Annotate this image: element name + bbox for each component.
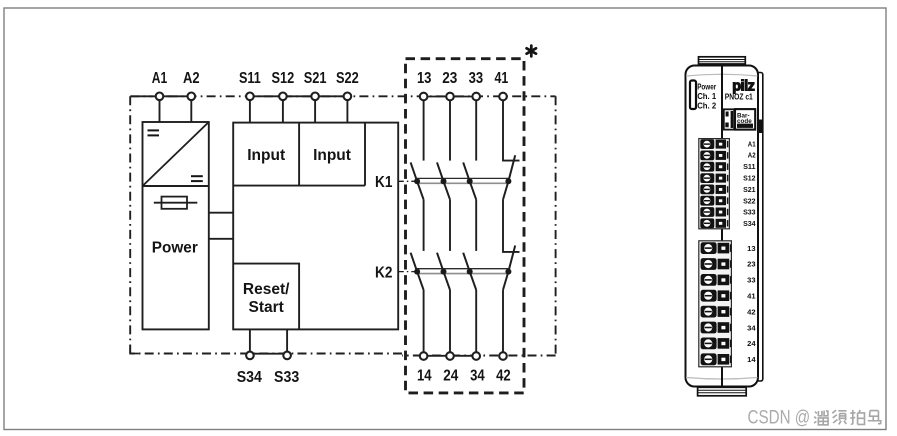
wire S11 stub [249, 100, 251, 123]
contact K1-41 blade (NC) [503, 155, 515, 199]
terminal S22 [344, 93, 352, 101]
contact K2-42 blade (NC) [503, 246, 515, 290]
terminal screw A1 (device) [700, 139, 727, 149]
wire S22 stub [346, 100, 348, 123]
svg-text:23: 23 [747, 260, 755, 269]
converter section divider [143, 185, 209, 187]
barcode label right box [735, 109, 755, 130]
svg-text:S12: S12 [743, 174, 756, 183]
svg-text:23: 23 [442, 70, 457, 87]
lower wire 24 [449, 290, 451, 352]
K1 junction dots [414, 178, 511, 184]
lower terminal block outline [699, 241, 732, 367]
svg-text:Start: Start [249, 299, 284, 316]
body bottom seam [686, 378, 758, 380]
fuse F1 [154, 197, 198, 209]
terminal S34 [246, 352, 254, 360]
reset/start block [233, 264, 299, 330]
svg-text:41: 41 [747, 292, 756, 301]
contact K1-41 upper wire [503, 101, 520, 161]
wire S34 stub [249, 329, 251, 351]
device top DIN tab [699, 57, 746, 65]
terminal screw 41 (device) [701, 290, 731, 302]
solid joins on boundary between terminal pairs [131, 96, 472, 356]
terminal screw 23 (device) [701, 258, 731, 270]
svg-text:S33: S33 [274, 369, 300, 386]
device side wall [757, 73, 763, 382]
svg-text:24: 24 [443, 368, 458, 385]
svg-text:14: 14 [417, 368, 432, 385]
watermark CSDN [748, 407, 881, 429]
K1 linkage bar [417, 178, 508, 183]
wire A2 stub [190, 100, 192, 123]
mid wire 33-34 [475, 200, 477, 251]
contact K1-23 blade [437, 162, 450, 199]
contact K1-23 upper wire [449, 101, 451, 161]
contact K2-13 blade [411, 253, 424, 290]
watermark glyph pai [850, 410, 864, 424]
terminal screw 34 (device) [701, 322, 731, 334]
svg-text:S22: S22 [336, 70, 359, 87]
terminal 33 [472, 93, 480, 101]
terminal A1 [156, 93, 164, 101]
svg-text:24: 24 [747, 339, 756, 348]
terminal S12 [279, 93, 287, 101]
svg-text:42: 42 [747, 307, 755, 316]
terminal 34 [472, 352, 480, 360]
svg-text:CSDN @: CSDN @ [748, 407, 811, 429]
svg-text:A2: A2 [183, 70, 200, 87]
mid wire 23-24 [449, 200, 451, 251]
body top seam [686, 74, 758, 76]
contact K1-13 blade [411, 162, 424, 199]
svg-text:Reset/: Reset/ [243, 281, 290, 298]
svg-text:S22: S22 [743, 196, 756, 205]
svg-text:S11: S11 [743, 162, 756, 171]
converter diagonal [143, 122, 209, 186]
svg-text:S21: S21 [304, 70, 327, 87]
LED window [690, 81, 696, 110]
watermark glyph ma [868, 411, 881, 424]
watermark glyph xu [832, 410, 846, 424]
barcode label left box [724, 109, 734, 129]
contact K1-13 upper wire [423, 101, 425, 161]
svg-text:A1: A1 [152, 70, 168, 87]
dash-dot enclosure boundary [130, 96, 555, 355]
K2 junction dots [414, 269, 511, 275]
lower wire 34 [475, 290, 477, 352]
body centre seam [721, 66, 723, 386]
terminal screw S12 (device) [700, 173, 727, 183]
device bottom tab [698, 387, 747, 396]
terminal 24 [446, 352, 454, 360]
contact block dashed outline [406, 59, 525, 393]
wire S12 stub [282, 100, 284, 123]
terminal screw 13 (device) [701, 242, 731, 254]
terminal 41 [499, 93, 507, 101]
lower terminal labels [747, 244, 756, 364]
upper terminal labels [743, 139, 756, 228]
terminal A2 [188, 93, 196, 101]
contact K1-33 blade [463, 162, 476, 199]
terminal screw 14 (device) [701, 353, 731, 365]
svg-text:S34: S34 [743, 219, 756, 228]
terminal screw S21 (device) [700, 185, 727, 195]
svg-text:Power: Power [152, 240, 198, 257]
svg-text:13: 13 [417, 70, 432, 87]
contact K1-33 upper wire [475, 101, 477, 161]
boundary corner marks [129, 346, 138, 355]
terminal screw S22 (device) [700, 196, 727, 206]
svg-text:34: 34 [470, 368, 485, 385]
terminal screw 33 (device) [701, 274, 731, 286]
svg-text:S21: S21 [743, 185, 756, 194]
wire A1 stub [159, 100, 161, 123]
K2 linkage bar [417, 269, 508, 274]
device PNOZ c1 front view [686, 57, 764, 396]
terminal S11 [246, 93, 254, 101]
svg-text:14: 14 [747, 355, 756, 364]
svg-text:S33: S33 [743, 208, 756, 217]
svg-text:Input: Input [313, 147, 351, 164]
terminal screw S34 (device) [700, 218, 727, 228]
DC symbol bottom-right [191, 176, 203, 181]
upper terminal block outline [699, 139, 730, 229]
terminal screw 42 (device) [701, 306, 731, 318]
svg-text:A1: A1 [748, 139, 756, 148]
asterisk note [527, 46, 536, 57]
wire S21 stub [314, 100, 316, 123]
svg-text:PNOZ c1: PNOZ c1 [725, 91, 753, 101]
mid wire 13-14 [423, 200, 425, 251]
svg-text:Input: Input [247, 147, 285, 164]
mid wire 41-42 [503, 200, 520, 252]
svg-text:K1: K1 [375, 174, 393, 191]
terminal screw 24 (device) [701, 338, 731, 350]
contact K2-33 blade [463, 253, 476, 290]
svg-text:34: 34 [747, 323, 756, 332]
svg-text:S12: S12 [272, 70, 295, 87]
K1 leader line [399, 180, 416, 182]
svg-text:K2: K2 [375, 264, 392, 281]
terminal screw A2 (device) [700, 151, 727, 161]
svg-text:Ch. 2: Ch. 2 [697, 100, 716, 110]
DC symbol top-left [148, 130, 160, 135]
svg-text:42: 42 [496, 368, 511, 385]
svg-text:33: 33 [469, 70, 484, 87]
terminal S21 [311, 93, 319, 101]
wire S33 stub [286, 329, 288, 351]
terminal S33 [283, 352, 291, 360]
svg-text:Power: Power [697, 81, 717, 91]
terminal 14 [420, 352, 428, 360]
terminal 23 [446, 93, 454, 101]
lower wire 42 [502, 290, 504, 352]
lower terminal block [699, 241, 732, 367]
terminal screw S11 (device) [700, 162, 727, 172]
power supply block U1 outline [143, 122, 209, 329]
main logic block outline [233, 123, 398, 330]
svg-text:A2: A2 [748, 151, 756, 160]
terminal 13 [420, 93, 428, 101]
input block 1 [233, 123, 365, 186]
svg-text:33: 33 [747, 276, 755, 285]
svg-text:S34: S34 [237, 369, 263, 386]
K2 leader line [399, 271, 416, 273]
device body [686, 66, 759, 387]
side connector notch [757, 120, 763, 134]
upper terminal block [699, 139, 730, 229]
terminal screw S33 (device) [700, 207, 727, 217]
contact K2-23 blade [437, 253, 450, 290]
svg-text:41: 41 [495, 70, 509, 87]
watermark glyph liu [814, 411, 828, 425]
svg-text:S11: S11 [239, 70, 261, 87]
power-to-logic bus wires [209, 213, 233, 239]
lower wire 14 [423, 290, 425, 352]
terminal 42 [499, 352, 507, 360]
svg-text:13: 13 [747, 244, 755, 253]
